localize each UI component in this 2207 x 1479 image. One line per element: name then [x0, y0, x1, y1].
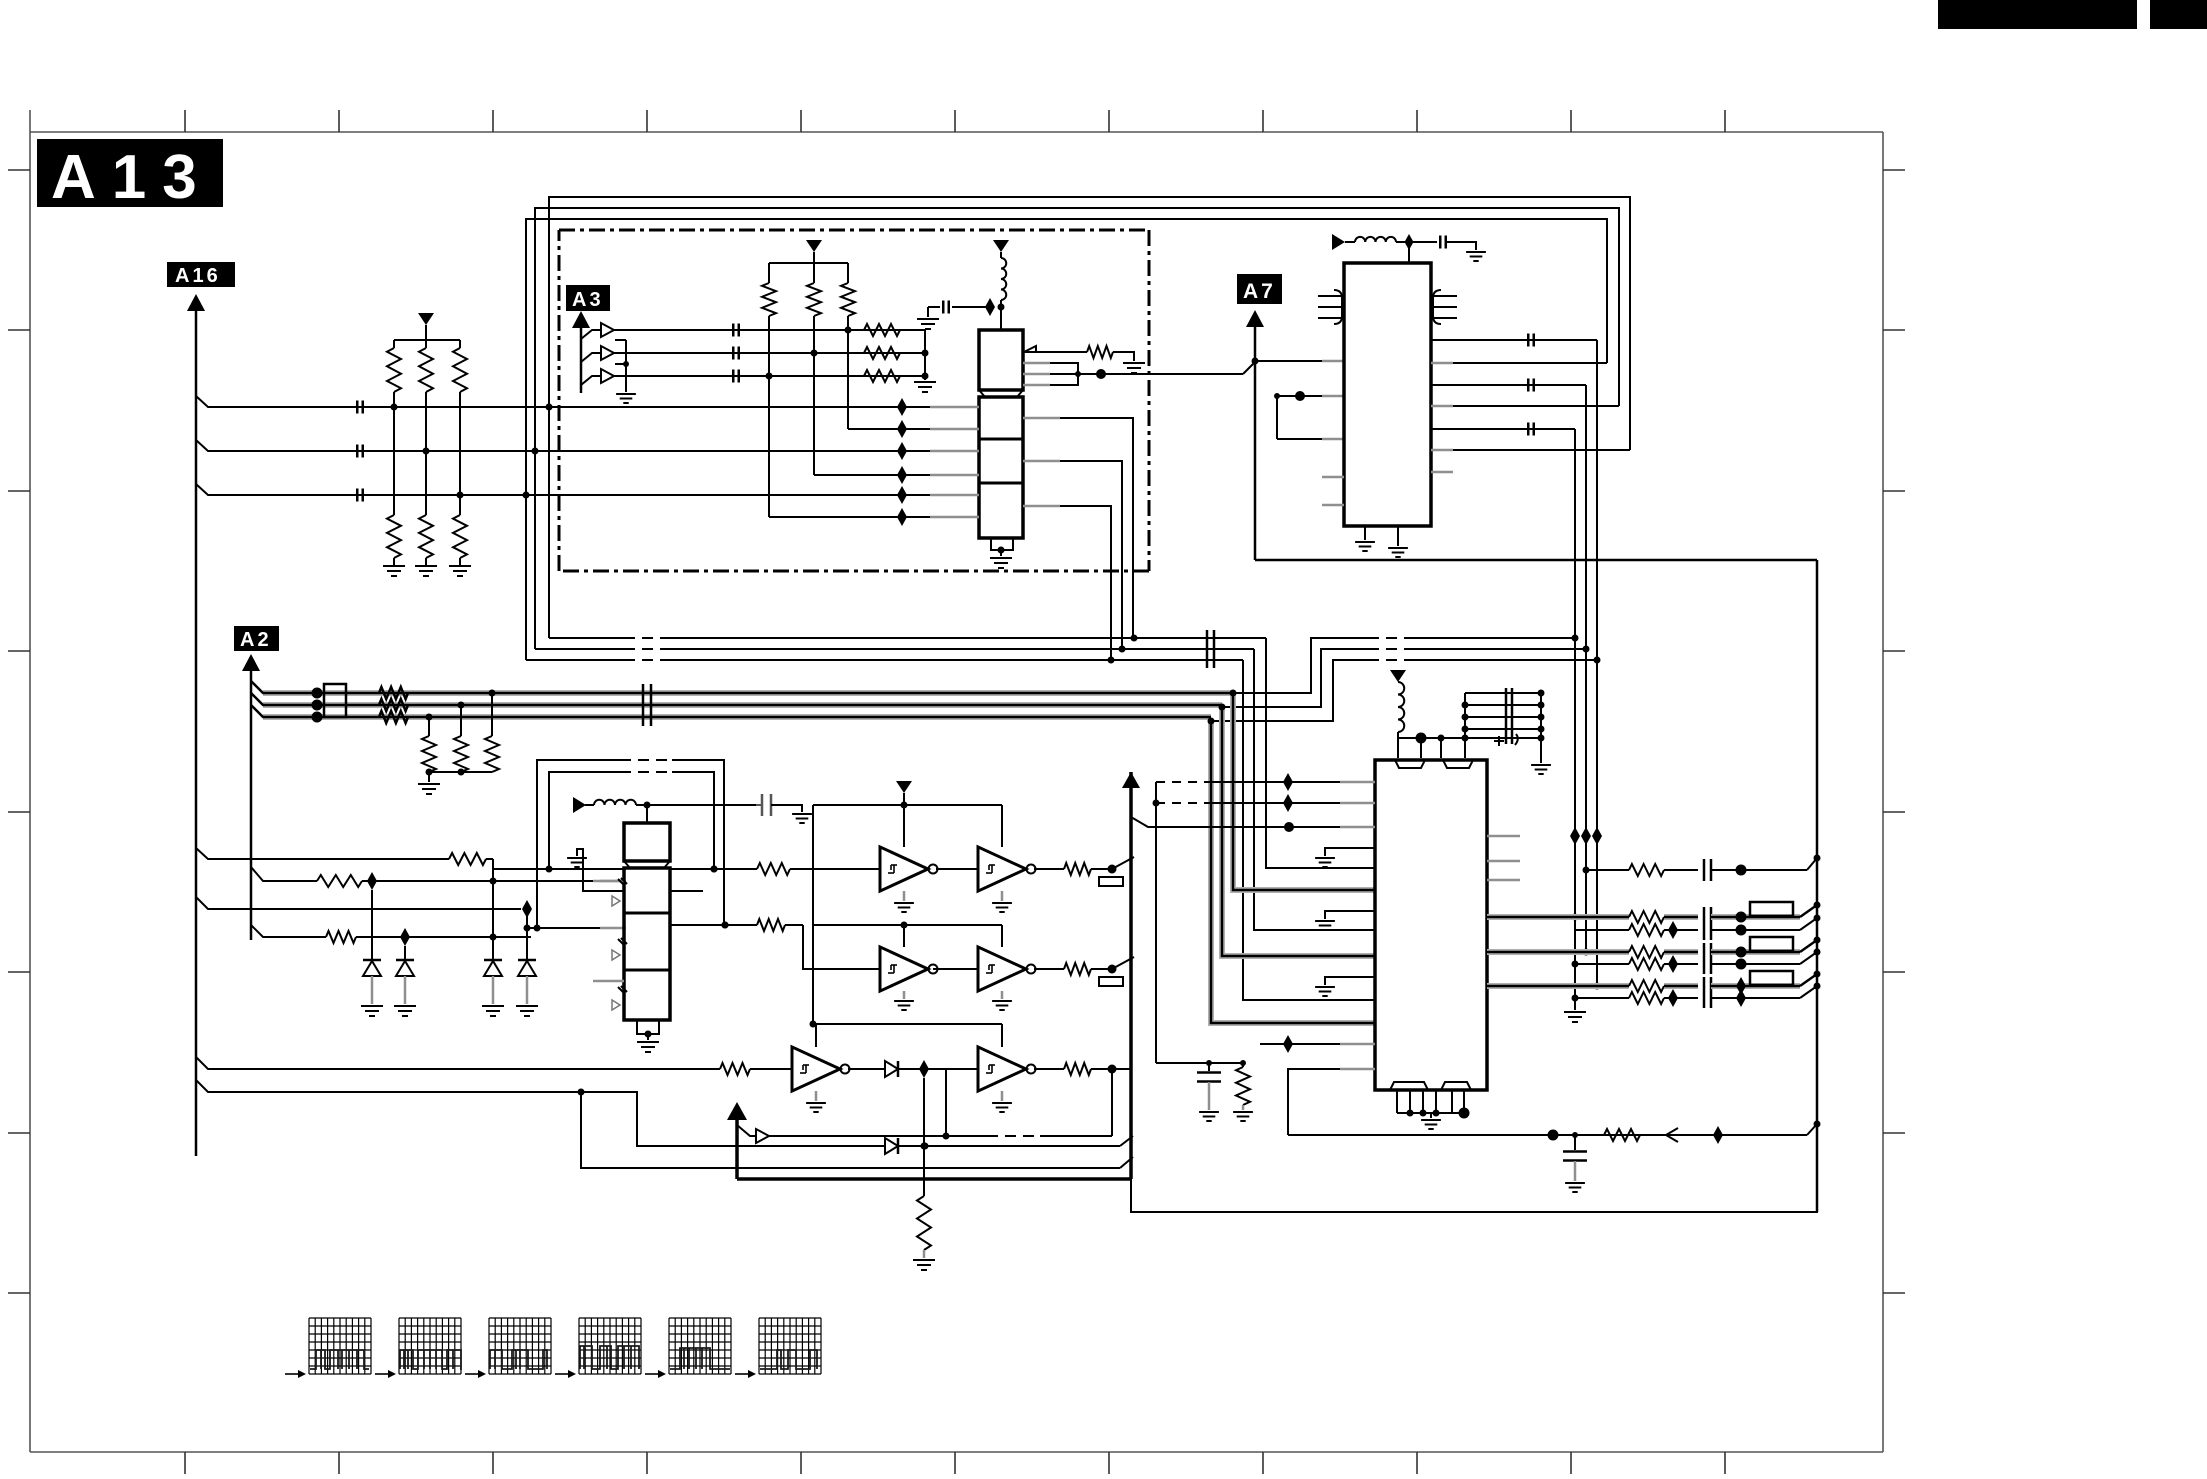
resistor R21 — [317, 875, 600, 887]
ground G11 — [516, 1006, 538, 1016]
wire in3 drop and row — [524, 909, 627, 960]
wire loop2 lower segment — [534, 451, 536, 649]
diode D2 — [363, 960, 381, 1004]
ground G32 — [1565, 1183, 1585, 1192]
wire A2 line1 — [251, 681, 1233, 699]
waveform scope W1 — [285, 1318, 371, 1378]
wire A3 bias top rail — [769, 262, 848, 264]
ground G8 — [418, 784, 440, 794]
resistor R24 — [1034, 863, 1117, 875]
capacitor C7 — [928, 301, 990, 318]
wire bus1 dash gap — [624, 637, 671, 640]
waveform scope W2 — [375, 1318, 461, 1378]
wire dash segment — [946, 1135, 1112, 1137]
wire in4 from A2 — [251, 925, 326, 937]
resistor R11 — [807, 263, 821, 475]
capacitor C10 — [756, 794, 802, 816]
resistor R20 — [449, 853, 493, 865]
resistor R25 — [1034, 963, 1117, 975]
wire A7 pin2 bracket — [1274, 391, 1344, 439]
junction dots A16 lines/resistors — [391, 404, 464, 499]
IC U6 top notches — [1395, 760, 1473, 768]
wire A16 branch 1 — [196, 396, 930, 407]
ground G4 — [914, 382, 936, 392]
wire v1156 — [1155, 782, 1157, 1063]
resistor R33 — [1629, 980, 1698, 992]
resistor R7 — [864, 324, 900, 336]
power symbol V6 — [1332, 234, 1345, 250]
wire loop1 (A16 line1 to A7) — [549, 197, 1630, 450]
wire U6 pin2 dashed — [1153, 794, 1376, 812]
capacitor C5 — [733, 347, 739, 360]
resistor R1 — [387, 340, 401, 407]
resistor R12 — [841, 263, 855, 429]
ground G18 — [806, 1091, 826, 1112]
wire U2 in stubs — [930, 407, 979, 517]
resistor R26 — [1034, 1063, 1117, 1075]
connector A2 arrow — [242, 654, 260, 940]
wire thick bus riser — [1129, 772, 1133, 1179]
wire step path 2 — [581, 1092, 1120, 1168]
wire bus1 — [549, 635, 1266, 642]
diamond on in3 — [522, 900, 532, 918]
wire U6 right stubs — [1487, 836, 1520, 880]
capacitor C21 — [1704, 977, 1800, 1008]
arrow head on bus — [1666, 1128, 1678, 1142]
ground G22 — [1388, 526, 1408, 557]
ground G24 — [1564, 1012, 1586, 1022]
capacitor C12 — [1528, 334, 1534, 347]
wire U3 right out1 — [670, 866, 757, 873]
wire jog3 dash gap — [1368, 659, 1410, 662]
wire gate feed row3 — [813, 1024, 1002, 1047]
wire row3 out — [1112, 1069, 1131, 1136]
wire row2 kink — [1112, 957, 1134, 969]
wire loop3 lower segment — [525, 495, 527, 660]
wire step path 1 — [196, 1080, 885, 1146]
wire bus1 drop to IC pin — [1266, 638, 1375, 868]
wire bias col3 to pin2 — [848, 428, 930, 430]
waveform scope W6 — [735, 1318, 821, 1378]
wire row1b kink — [1800, 915, 1821, 931]
ground G33 — [394, 1006, 416, 1016]
wire U6 bottom pins — [1397, 1090, 1470, 1119]
wire A7 ret1 — [1431, 362, 1607, 365]
resistor R22 — [326, 931, 531, 943]
wire A7 pin1 — [1255, 360, 1344, 362]
IC U2 (A3 front-end lower) — [979, 397, 1023, 538]
resistor R36 — [1604, 1129, 1640, 1141]
wire diode2 drop — [371, 890, 373, 960]
wire U6 pin14 — [1288, 1069, 1375, 1135]
IC U3 left ground pin — [567, 849, 624, 891]
resistor R35 — [1236, 1063, 1250, 1110]
wire A2 line3 — [251, 705, 1211, 723]
label A3 — [566, 285, 610, 311]
wire bus3 dash gap — [624, 659, 671, 662]
capacitor C11 — [1440, 236, 1476, 251]
ground G17 — [992, 991, 1012, 1010]
wire in1 step — [493, 859, 626, 873]
resistor R9 — [864, 370, 900, 382]
svg-text:A2: A2 — [240, 629, 272, 651]
wire row1 gate tops — [904, 805, 1002, 847]
wire row3 in — [196, 1057, 720, 1069]
connector arrow up (feedback) — [727, 1102, 747, 1179]
wire A2 loop inner — [549, 772, 718, 873]
inverter U4B — [978, 847, 1036, 891]
ground G20 — [913, 1260, 935, 1270]
wire A3 termination rail — [922, 330, 929, 380]
wire row0 kink — [1807, 855, 1821, 871]
top-right black box 2 — [2150, 0, 2207, 29]
ground G12 — [792, 814, 812, 823]
wire bias col1 to pin6 — [769, 516, 930, 518]
wire bus2 drop to IC pin — [1254, 649, 1375, 930]
wire row1 link — [936, 868, 978, 870]
junction dots A3 bias — [766, 327, 852, 380]
top-right black box 1 — [1938, 0, 2137, 29]
wire row2 gate tops — [901, 922, 1003, 948]
capacitor C20 — [1711, 959, 1800, 970]
wire RC row3 thick — [1487, 983, 1629, 989]
power symbol V4 — [573, 797, 586, 813]
ground G2 — [415, 566, 437, 576]
capacitor C8 bus coupling — [1207, 630, 1214, 668]
resistor R28 — [1629, 864, 1698, 876]
wire loop2 (A16 line2 to A7) — [535, 208, 1619, 451]
ground G21 — [1355, 526, 1375, 551]
arrow head bus riser — [1122, 772, 1140, 788]
power symbol V3 — [993, 240, 1009, 258]
IC U3 bottom tab — [637, 1020, 659, 1040]
wire cap bank lines — [1462, 690, 1545, 742]
diamond on in4 — [400, 928, 497, 946]
resistor R37 — [757, 919, 803, 931]
inverter U4A — [880, 847, 938, 891]
wire A2 line2 — [251, 693, 1222, 711]
wire bus2 dash gap — [624, 648, 671, 651]
inductor L3 — [1345, 234, 1437, 263]
wire tap with arrow — [737, 1125, 950, 1143]
capacitor C3 on A16 line3 — [357, 489, 363, 502]
wire row1 kink — [1800, 902, 1821, 918]
capacitor C23 — [1197, 1063, 1221, 1110]
inverter U4D — [978, 947, 1036, 991]
wire U2 out1 — [1023, 418, 1133, 638]
wire row2b kink — [1800, 949, 1821, 965]
resistor R17 — [422, 714, 436, 773]
label A7 — [1237, 274, 1282, 304]
resistor R32 — [1629, 955, 1698, 973]
ground G15 — [992, 891, 1012, 912]
wire U2 out2 — [1023, 461, 1122, 649]
wire row3 mid — [848, 1068, 885, 1070]
wire in2 stub — [600, 880, 626, 883]
svg-text:A3: A3 — [572, 289, 604, 311]
resistor R29 — [1629, 911, 1698, 923]
connector A3 shield ground — [615, 340, 636, 403]
IC U2 bottom tab — [991, 538, 1013, 556]
wire A16 branch 3 — [196, 484, 930, 495]
connector A7 arrow — [1246, 310, 1264, 560]
wire vertical v1575 — [1570, 429, 1580, 1010]
junction dot/diamond at L1 — [985, 298, 1005, 316]
wire gate feed row1 — [813, 805, 1002, 925]
ground G7 — [1123, 363, 1145, 373]
wire bottom rect — [1131, 1124, 1817, 1212]
ground G16 — [894, 991, 914, 1010]
inverter U4C — [880, 947, 938, 991]
ground G13 — [637, 1042, 659, 1052]
svg-text:A16: A16 — [175, 265, 221, 287]
wire RC row2 thick — [1487, 949, 1629, 955]
wire row2 kink — [1800, 937, 1821, 953]
resistor R6 — [453, 495, 467, 566]
wire RC row1 thick — [1487, 914, 1629, 920]
wire jog1 dash gap — [1368, 637, 1410, 640]
jumper J2 — [1099, 977, 1123, 986]
wire cap bank ground — [1540, 738, 1542, 763]
wire A7 stub — [1322, 472, 1453, 505]
wire diode4 drop — [404, 946, 406, 960]
ground G6 — [990, 558, 1012, 568]
waveform scope W3 — [465, 1318, 551, 1378]
wire U6 gnd pin2 — [1325, 911, 1375, 919]
resonator X2 — [1433, 290, 1457, 324]
frame tick marks — [8, 110, 1905, 1474]
resistor R30 — [1629, 921, 1698, 939]
wire A7 loop right — [1255, 559, 1817, 562]
capacitor C2 on A16 line2 — [357, 445, 363, 458]
capacitor C18 — [1711, 925, 1800, 936]
wire jog3 — [1211, 657, 1601, 722]
wire RC filter top — [1156, 1060, 1246, 1066]
resistor R34 — [1629, 989, 1698, 1007]
wire in2 from A2 — [251, 867, 317, 881]
jumper J5 — [1750, 971, 1793, 985]
wire row1 kink — [1112, 857, 1134, 869]
ground G26 — [1315, 858, 1335, 867]
wire bias col2 to pin4 — [814, 474, 930, 476]
ground G29 — [1421, 1120, 1441, 1129]
wire vertical v1586 — [1581, 385, 1591, 956]
resonator X1 — [1318, 290, 1342, 324]
wire U3 right stub — [670, 890, 703, 892]
wire row2 link — [933, 968, 978, 970]
jumper J1 — [1099, 877, 1123, 886]
ferrite bead diamonds — [897, 398, 907, 526]
capacitor C6 — [733, 370, 739, 383]
ground G23 — [1466, 252, 1486, 261]
waveform scope W5 — [645, 1318, 731, 1378]
waveform scope W4 — [555, 1318, 641, 1378]
wire A3 pin3 — [581, 369, 925, 385]
wire vertical v1597 — [1592, 340, 1602, 990]
wire bus3 — [526, 657, 1243, 664]
wire A2 line1 drop — [1230, 690, 1376, 891]
power symbol V1 — [418, 313, 434, 340]
wire A2 loop inner dash gap — [620, 771, 672, 774]
wire A7 ret2 — [1431, 405, 1619, 408]
wire row3b kink — [1800, 983, 1821, 999]
wire U3 top pin — [646, 805, 648, 823]
border frame — [30, 110, 1883, 1452]
wire bus2 — [535, 646, 1254, 653]
capacitor C22 — [1711, 989, 1800, 1007]
wire A3 pin2 — [581, 346, 925, 362]
wire A2 line2 drop — [1219, 704, 1376, 957]
wire RC row0 — [1586, 869, 1629, 871]
wire A2 loop outer — [537, 760, 729, 929]
power symbol V7 — [1390, 670, 1406, 682]
wire in3 from A16 — [196, 897, 521, 909]
jumper J3 — [1750, 902, 1793, 916]
ground G3 — [449, 566, 471, 576]
wire A7 out2 — [1431, 384, 1586, 386]
wire A2 line3 drop — [1208, 718, 1376, 1024]
diode D5 — [885, 1138, 1120, 1154]
capacitor C14 — [1528, 423, 1534, 436]
wire U6 pin3 — [1131, 817, 1375, 832]
capacitor C1 on A16 line1 — [357, 401, 363, 414]
diamond on bottom bus — [1713, 1126, 1723, 1144]
wire pullup top rail — [394, 339, 460, 341]
svg-text:A13: A13 — [51, 143, 213, 212]
IC U1 (A3 front-end upper) — [979, 330, 1023, 397]
wire row3 kink — [1800, 971, 1821, 987]
wire loop3 (A16 line3 to A7) — [526, 219, 1607, 495]
wire right bus vertical — [1814, 560, 1821, 1212]
wire bottom bus — [1288, 1130, 1807, 1141]
wire U6 pin1 dashed — [1156, 773, 1375, 791]
wire kink joins — [1120, 1136, 1133, 1168]
A3 block dash-dot border — [559, 230, 1149, 571]
wire U1 pin loop — [1023, 363, 1081, 385]
wire jog2 — [1222, 646, 1590, 708]
connector A3 arrow — [572, 311, 590, 393]
ground G9 — [482, 1006, 504, 1016]
wire A16 branch 2 — [196, 440, 930, 451]
IC U5 (A7) — [1344, 263, 1431, 526]
junction dots loop verticals — [523, 404, 553, 499]
resistor R18 — [454, 702, 468, 773]
capacitor C13 — [1528, 379, 1534, 392]
wire A7 ret3 — [1431, 449, 1630, 452]
wire U3 right out2 — [670, 922, 757, 929]
power symbol V5 — [896, 781, 912, 809]
IC U6 (video processor) — [1375, 760, 1487, 1090]
wire U1 pin out2 to A7 — [1023, 369, 1243, 379]
wire thick bus bottom — [737, 1177, 1131, 1181]
resistor R38 — [720, 1063, 792, 1075]
label A16 — [167, 262, 235, 287]
wire bus3 drop to IC pin — [1243, 660, 1375, 1000]
wire A7 out1 — [1431, 339, 1597, 341]
resistor R14 — [379, 687, 408, 699]
inductor L1 — [1001, 258, 1006, 330]
resistor R5 — [419, 451, 433, 566]
diode D3 — [518, 960, 536, 1004]
filter FL1 — [324, 684, 346, 717]
resistor R2 — [419, 340, 433, 451]
ground G19 — [992, 1091, 1012, 1112]
wire U2 out3 — [1023, 506, 1111, 660]
resistor R3 — [453, 340, 467, 495]
capacitor C16 — [1704, 859, 1807, 881]
diode D1 — [484, 960, 502, 1004]
wire U6 top rail — [1398, 733, 1469, 759]
wire RC row1 thin — [1574, 929, 1629, 931]
wire in1 from A16 — [196, 848, 449, 859]
ground G25 — [1531, 765, 1551, 774]
wire loop1 lower segment — [548, 407, 550, 638]
wire U6 gnd pin3 — [1325, 977, 1375, 985]
ground G27 — [1315, 921, 1335, 930]
wire inv4 input tap — [945, 1069, 947, 1136]
diode D4 — [885, 1061, 978, 1077]
ground G14 — [894, 891, 914, 912]
ground G31 — [1233, 1112, 1253, 1121]
ground G10 — [361, 1006, 383, 1016]
resistor R15 — [379, 699, 408, 711]
capacitor C9 trio — [643, 684, 651, 726]
resistor R16 — [379, 711, 408, 723]
wire RC row2 thin — [1574, 963, 1629, 965]
resistor R13 — [1087, 346, 1134, 361]
capacitor C19 — [1704, 943, 1800, 974]
diamond row3 — [919, 1060, 929, 1078]
resistor R19 — [485, 690, 499, 773]
wire A7 out3 — [1431, 428, 1575, 430]
jumper J4 — [1750, 937, 1793, 951]
ground G1 — [383, 566, 405, 576]
capacitor C17 — [1704, 907, 1800, 940]
wire tap vertical — [490, 869, 497, 960]
connector A16 arrow — [187, 294, 205, 1156]
ground G28 — [1315, 987, 1335, 996]
inductor L4 — [1398, 682, 1404, 738]
wire A3 pin1 — [581, 323, 925, 339]
IC U3 (A2 processor) — [624, 868, 670, 1020]
wire U6 pin diamond — [1260, 1035, 1375, 1053]
inverter U4F — [978, 1047, 1036, 1091]
resistor R8 — [864, 347, 900, 359]
resistor R27 pulldown — [917, 1078, 931, 1258]
wire A3-A7 link kink — [1243, 362, 1255, 374]
resistor R23 — [757, 863, 880, 875]
diamond on in2 — [367, 872, 377, 890]
IC U3 top (A2 processor upper) — [624, 823, 670, 868]
inverter U4E — [792, 1047, 850, 1091]
ground G30 — [1199, 1112, 1219, 1121]
wire row2 in — [803, 925, 880, 969]
svg-text:A7: A7 — [1243, 280, 1276, 303]
resistor R31 — [1629, 946, 1698, 958]
capacitor C24 — [1563, 1135, 1587, 1181]
diode D6 — [396, 960, 414, 1004]
wire bottom bus kink — [1807, 1124, 1817, 1135]
IC U6 bottom notches — [1390, 1082, 1471, 1090]
inductor L2 — [585, 800, 756, 809]
ground G5 — [917, 319, 939, 329]
wire jog1 — [1233, 635, 1579, 694]
wire gate feed row2 — [810, 925, 1003, 1028]
wire A7 pin3 — [1277, 438, 1344, 440]
power symbol V2 — [806, 240, 822, 263]
capacitor C4 — [733, 324, 739, 337]
wire A2 loop outer dash gap — [620, 759, 672, 762]
